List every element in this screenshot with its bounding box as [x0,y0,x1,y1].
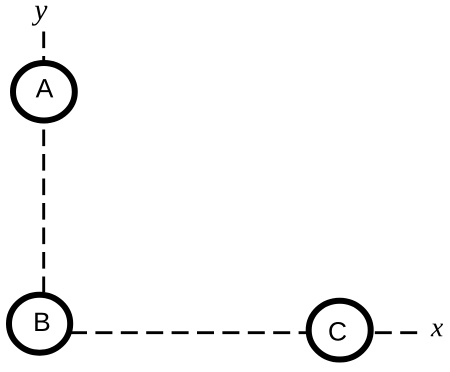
wire: dashed vertical y-axis line through node A down to node B [42,32,45,293]
node B circle [9,295,70,353]
node A circle [13,63,75,121]
node C circle [309,301,371,360]
node A label "A" [36,79,54,97]
node C label "C" [329,322,346,341]
wire: dashed horizontal x-axis line from node B through node C [70,331,420,334]
node B label "B" [35,313,49,331]
x axis label "x" (italic) [431,324,443,337]
y axis label "y" (italic) [32,6,48,26]
